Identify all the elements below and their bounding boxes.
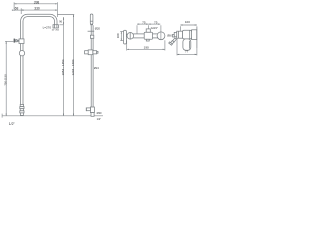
svg-text:398: 398 xyxy=(34,0,40,4)
dimension 75 left xyxy=(137,21,148,25)
dimension 100 top xyxy=(180,20,197,31)
outlet nut lower-left xyxy=(169,38,177,45)
svg-text:1054 - 1454: 1054 - 1454 xyxy=(61,59,65,75)
svg-text:Ø20: Ø20 xyxy=(95,27,101,31)
left escutcheon circle xyxy=(127,33,134,40)
slider ring on riser xyxy=(19,51,24,56)
shower arm outlet fitting at arch end xyxy=(53,25,58,28)
holder pin tick on pipe xyxy=(88,30,95,32)
svg-text:1204 - 1604: 1204 - 1604 xyxy=(71,59,75,75)
svg-text:Ø25: Ø25 xyxy=(56,29,60,31)
front knob xyxy=(174,32,177,36)
holder bracket side view xyxy=(85,50,98,55)
svg-text:100: 100 xyxy=(185,20,190,24)
riser + arch pipe inner line xyxy=(23,17,55,105)
svg-text:Ø24: Ø24 xyxy=(94,66,99,70)
svg-text:68: 68 xyxy=(15,6,19,10)
mixer body cylinder xyxy=(183,30,192,39)
front cylinder xyxy=(177,31,183,38)
bottom stub xyxy=(146,39,149,41)
center body block xyxy=(144,32,152,39)
dimension 77 bottom xyxy=(177,38,197,55)
slider box on riser xyxy=(19,39,24,44)
extension lines 75/75 xyxy=(136,25,138,33)
svg-text:Ø60: Ø60 xyxy=(167,34,172,37)
left vertical dimension 750-1150 xyxy=(4,41,14,115)
dimension 398 (overall width, top) xyxy=(14,0,57,4)
bottom fitting side view xyxy=(86,107,94,116)
dimension 330 xyxy=(21,6,57,10)
bracket vertical dimension 100 xyxy=(116,32,125,41)
svg-text:100: 100 xyxy=(116,33,120,38)
svg-text:L=270: L=270 xyxy=(43,25,52,29)
tall dimension 2 (x=73.5) xyxy=(58,15,76,116)
svg-text:1/2”: 1/2” xyxy=(9,122,15,126)
hand shower holder knob xyxy=(14,39,19,43)
handle inner line xyxy=(188,41,190,49)
bracket bar xyxy=(124,30,127,44)
dimension 68 xyxy=(12,6,24,10)
front cylinder seam xyxy=(177,31,179,38)
tall dimension 1 (x=63.5) xyxy=(59,17,65,116)
wall flange xyxy=(192,30,197,40)
svg-text:330: 330 xyxy=(34,6,40,10)
svg-text:G3/4”: G3/4” xyxy=(151,26,158,30)
joint block on pipe xyxy=(90,35,93,38)
floor baseline xyxy=(2,115,103,117)
extension lines of top dimensions xyxy=(13,2,15,11)
riser + arch pipe outer line xyxy=(21,14,57,104)
dimension 75 right xyxy=(148,21,160,25)
left escutcheon diameter line xyxy=(129,32,131,39)
outlet connector xyxy=(173,34,175,37)
right escutcheon diameter line xyxy=(160,32,162,39)
svg-text:190: 190 xyxy=(144,45,149,49)
right escutcheon circle xyxy=(157,32,165,40)
svg-text:75: 75 xyxy=(142,21,146,25)
mixer bar body xyxy=(129,34,162,38)
svg-text:Ø30: Ø30 xyxy=(97,111,102,115)
dimension 190 xyxy=(127,40,165,50)
baseline end tick left xyxy=(1,114,3,118)
body seam line xyxy=(189,30,191,38)
side view pipe xyxy=(90,25,92,107)
svg-text:750-1150: 750-1150 xyxy=(4,74,8,86)
wall line xyxy=(196,26,198,48)
hand shower side profile capsule xyxy=(90,14,93,25)
svg-text:77: 77 xyxy=(185,50,189,54)
svg-text:75: 75 xyxy=(154,21,158,25)
bottom threaded fitting stack xyxy=(20,105,24,116)
handle lever xyxy=(183,39,191,50)
top outlet xyxy=(146,29,150,32)
bracket arm xyxy=(127,34,128,36)
svg-text:1/2”: 1/2” xyxy=(97,117,102,121)
